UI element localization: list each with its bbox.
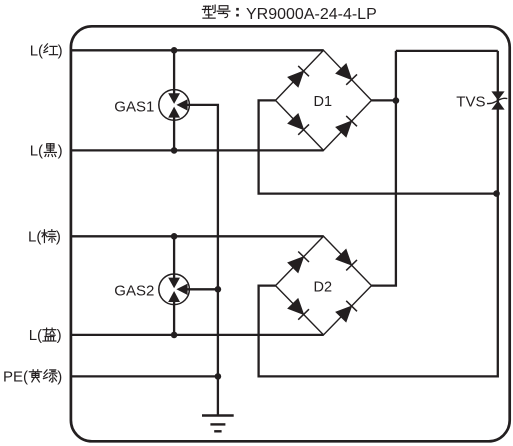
svg-text:L(: L( <box>29 327 42 344</box>
ground symbol <box>202 416 234 432</box>
CJK glyph: hei (black) <box>44 144 56 157</box>
wire TVS branch down and left to D2 minus <box>259 51 498 377</box>
CJK glyph: zong (brown) <box>42 230 56 243</box>
diode bridge D2 outline <box>276 236 372 335</box>
gas discharge tube GAS2 <box>159 274 190 305</box>
diode D2 left-top arm <box>289 252 310 273</box>
wire GAS1 bottom lead <box>173 116 175 150</box>
junction node on L(red) at GAS1 <box>171 47 178 54</box>
diode bridge D1 outline <box>276 50 372 150</box>
enclosure border <box>71 26 510 441</box>
wire top link to TVS branch <box>396 50 498 52</box>
wire L(black) line <box>71 149 324 151</box>
svg-text:PE(: PE( <box>3 369 28 386</box>
junction node on L(blue) at GAS2 <box>171 332 178 339</box>
junction node on L(black) at GAS1 <box>171 147 178 154</box>
diode D1 bottom-right arm <box>337 116 358 136</box>
wire GAS2 bottom lead <box>173 300 175 335</box>
diode D2 top-right arm <box>337 250 358 271</box>
junction node GAS2 electrode on ground bus <box>215 286 222 293</box>
svg-text:GAS1: GAS1 <box>114 98 154 115</box>
wire GAS1 top lead <box>173 50 175 94</box>
svg-text:YR9000A-24-4-LP: YR9000A-24-4-LP <box>246 6 377 23</box>
svg-text:GAS2: GAS2 <box>114 283 154 300</box>
CJK glyph: hong (red) <box>44 44 58 55</box>
svg-text:L(: L( <box>30 43 43 60</box>
CJK glyph: hao (number) in title <box>217 6 230 18</box>
wire L(red) line <box>71 49 324 51</box>
label L(black) latin part <box>30 143 63 160</box>
svg-text:D2: D2 <box>314 279 333 295</box>
label L(blue) latin part <box>29 327 62 344</box>
diode D2 bottom-right arm <box>337 301 358 322</box>
label PE latin part <box>3 369 62 386</box>
svg-text:L(: L( <box>28 229 41 246</box>
svg-text:D1: D1 <box>314 94 333 110</box>
wire L(blue) line <box>71 334 324 336</box>
svg-text:L(: L( <box>30 143 43 160</box>
diode D1 top-right arm <box>337 64 358 85</box>
CJK glyph: huang (yellow) <box>29 370 41 382</box>
svg-text:): ) <box>57 369 62 386</box>
gas discharge tube GAS1 <box>159 90 190 121</box>
junction node D1 plus on bus <box>393 97 400 104</box>
diode D1 left-top arm <box>289 66 310 87</box>
CJK glyph: xing (model) in title <box>202 5 215 18</box>
label title colon <box>236 8 239 17</box>
wire GAS2 third electrode <box>187 288 218 290</box>
wire PE line <box>71 375 218 377</box>
wire D1 plus stub <box>372 99 396 101</box>
CJK glyph: lv (green) <box>43 370 56 382</box>
TVS diode bidirectional <box>487 91 507 109</box>
wire ground stem <box>217 376 219 415</box>
diode D2 left-bottom arm <box>289 299 310 320</box>
wire GAS2 top lead <box>173 236 175 279</box>
label L(brown) latin part <box>28 229 61 246</box>
svg-text:): ) <box>56 229 61 246</box>
junction node on L(brown) at GAS2 <box>171 233 178 240</box>
wire D1 minus output to TVS bottom node <box>259 100 497 193</box>
junction node PE on ground bus <box>215 373 222 380</box>
svg-text:): ) <box>58 43 63 60</box>
wire plus bus to D2 plus <box>372 51 396 286</box>
CJK glyph: lan (blue) <box>43 328 56 341</box>
svg-text:TVS: TVS <box>456 94 485 111</box>
svg-text:): ) <box>58 143 63 160</box>
svg-text:): ) <box>57 327 62 344</box>
wire L(brown) line <box>71 235 324 237</box>
wire GAS1 third electrode to ground bus <box>187 105 218 377</box>
label L(red) latin part <box>30 43 63 60</box>
junction node TVS bottom <box>493 190 500 197</box>
diode D1 left-bottom arm <box>289 114 310 135</box>
